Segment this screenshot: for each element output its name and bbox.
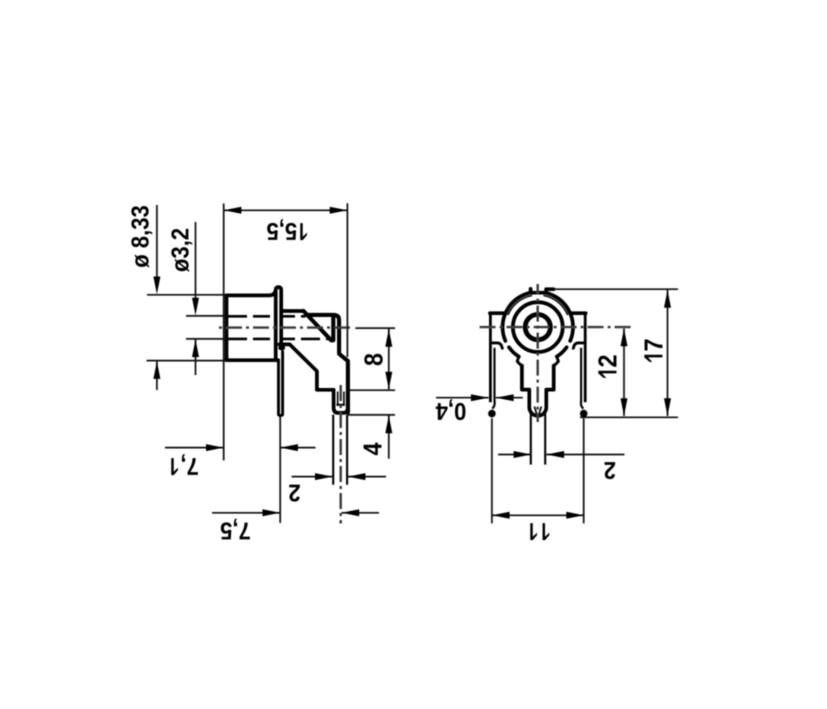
bracket top edge <box>282 309 304 313</box>
dim 15,5 extension lines <box>224 203 348 460</box>
dim ø3,2 label <box>171 229 192 272</box>
dim 7,1 label <box>171 454 198 475</box>
hidden hole line lower <box>228 338 270 341</box>
right horn <box>554 357 559 367</box>
side view centerline <box>219 326 352 328</box>
front horizontal centerline <box>480 326 632 328</box>
front pin <box>531 414 545 465</box>
dim 8 line <box>388 329 390 389</box>
dim 7,5 label <box>221 519 250 540</box>
dim ø3,2 lines <box>186 222 227 375</box>
outer shell circle arcs <box>503 293 530 341</box>
solder pin <box>333 415 347 485</box>
dim 4 extension line <box>348 414 395 416</box>
dim 15,5 line <box>224 209 348 211</box>
pin tip cone <box>534 407 541 418</box>
contact tube <box>334 390 348 413</box>
neck and contact tube front <box>522 366 554 416</box>
mounting leg below flange <box>279 352 283 416</box>
dim ø8,33 label <box>131 206 152 268</box>
dim 17 line <box>667 290 669 416</box>
pin centerline <box>340 385 342 524</box>
tube inner tick <box>336 404 345 406</box>
right leg <box>580 348 582 401</box>
dim 0,4 lines <box>436 397 523 399</box>
dim 7,5 line <box>212 512 379 514</box>
dim 17 label <box>644 340 662 362</box>
bracket lower notch and diagonal <box>279 344 333 389</box>
dim ø8,33 lines <box>147 205 226 390</box>
dim 2 line (front pin) <box>498 454 624 456</box>
dim 8 label <box>364 354 382 366</box>
hidden hole line upper <box>228 315 270 318</box>
bottom extension line <box>580 416 678 418</box>
flange extension line down <box>279 417 281 524</box>
leg extension lines <box>492 418 584 523</box>
left leg <box>493 348 495 401</box>
flange plate <box>276 287 282 358</box>
bracket top diagonal <box>304 311 334 340</box>
dim 4 arrow <box>388 416 390 459</box>
tube inner lines <box>338 392 344 405</box>
bushing outline <box>227 290 278 360</box>
center socket circle <box>525 315 550 340</box>
dim 15,5 label <box>267 219 307 240</box>
dim 11 line <box>492 514 584 516</box>
dim 2 line (pin) <box>292 476 386 478</box>
dim 8 extension lines <box>350 328 395 390</box>
left ear <box>490 311 506 315</box>
insulator circle <box>513 302 563 352</box>
left horn <box>517 357 522 367</box>
dim 4 label <box>364 443 382 456</box>
shell rim thin arcs <box>508 295 532 315</box>
dim 0,4 label <box>436 399 466 420</box>
dim 2 label <box>289 485 300 502</box>
dim 7,1 line <box>165 447 316 449</box>
dim 17 top extension line <box>554 288 679 290</box>
top notch <box>531 289 554 293</box>
bracket upper-right fold <box>307 315 348 413</box>
solder nub on flange <box>278 345 285 350</box>
dim 12 line <box>623 329 625 417</box>
dim 12 label <box>598 355 616 377</box>
front vertical centerline <box>537 284 539 422</box>
dim 11 label <box>530 523 549 540</box>
dim 2 label (front) <box>605 462 616 479</box>
right ear <box>570 311 586 315</box>
